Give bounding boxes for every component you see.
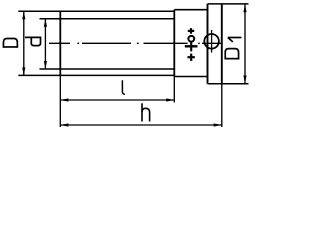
arrowhead D1 up [243,4,246,12]
label D1: glyph 1 (rotated) [228,38,242,42]
collar bottom outline [174,76,207,78]
symbol crossbar [185,45,198,47]
label h [142,103,150,121]
centerline (dash-dot axis) [49,42,222,44]
head right edge [221,4,223,84]
dimension line l [60,99,174,101]
symbol stem [190,42,192,52]
arrowhead h right [214,123,222,126]
arrowhead d up [44,19,47,27]
label l [122,80,125,94]
symbol plus (bottom) [188,54,195,61]
head cross-hole circle [204,34,219,49]
body left edge [59,11,61,75]
arrowhead D down [22,67,25,75]
head left face [207,4,209,84]
dimension line h [60,124,222,126]
arrowhead h left [60,123,68,126]
hole top line + d top extension line [40,18,175,20]
label D1: glyph D (rotated) [225,49,240,60]
body top outline + D top extension line [18,10,174,12]
head top outline + D1 top extension line [208,3,249,5]
left extension line for l and h dimensions [59,75,61,127]
arrowhead D up [22,11,25,19]
collar top outline [174,9,207,11]
dimension line D1 [244,4,246,83]
dimension line d [44,19,46,69]
arrowhead D1 down [243,76,246,84]
collar left face (step) [173,10,175,77]
label D (rotated) [3,39,18,48]
arrowhead l right [166,98,174,101]
arrowhead l left [60,98,68,101]
body bottom outline + D bottom extension line [18,74,174,76]
hole bottom line + d bottom extension line [40,68,175,70]
symbol ring [188,36,194,42]
dimension line D [23,11,25,75]
head cross-hole vertical crosshair [211,30,213,53]
arrowhead d down [44,61,47,69]
symbol plus (top) [188,28,194,34]
label d (rotated) [25,37,41,45]
right extension line for l dimension [173,77,175,103]
right extension line for h dimension [221,84,223,127]
head bottom outline + D1 bottom extension line [208,83,249,85]
